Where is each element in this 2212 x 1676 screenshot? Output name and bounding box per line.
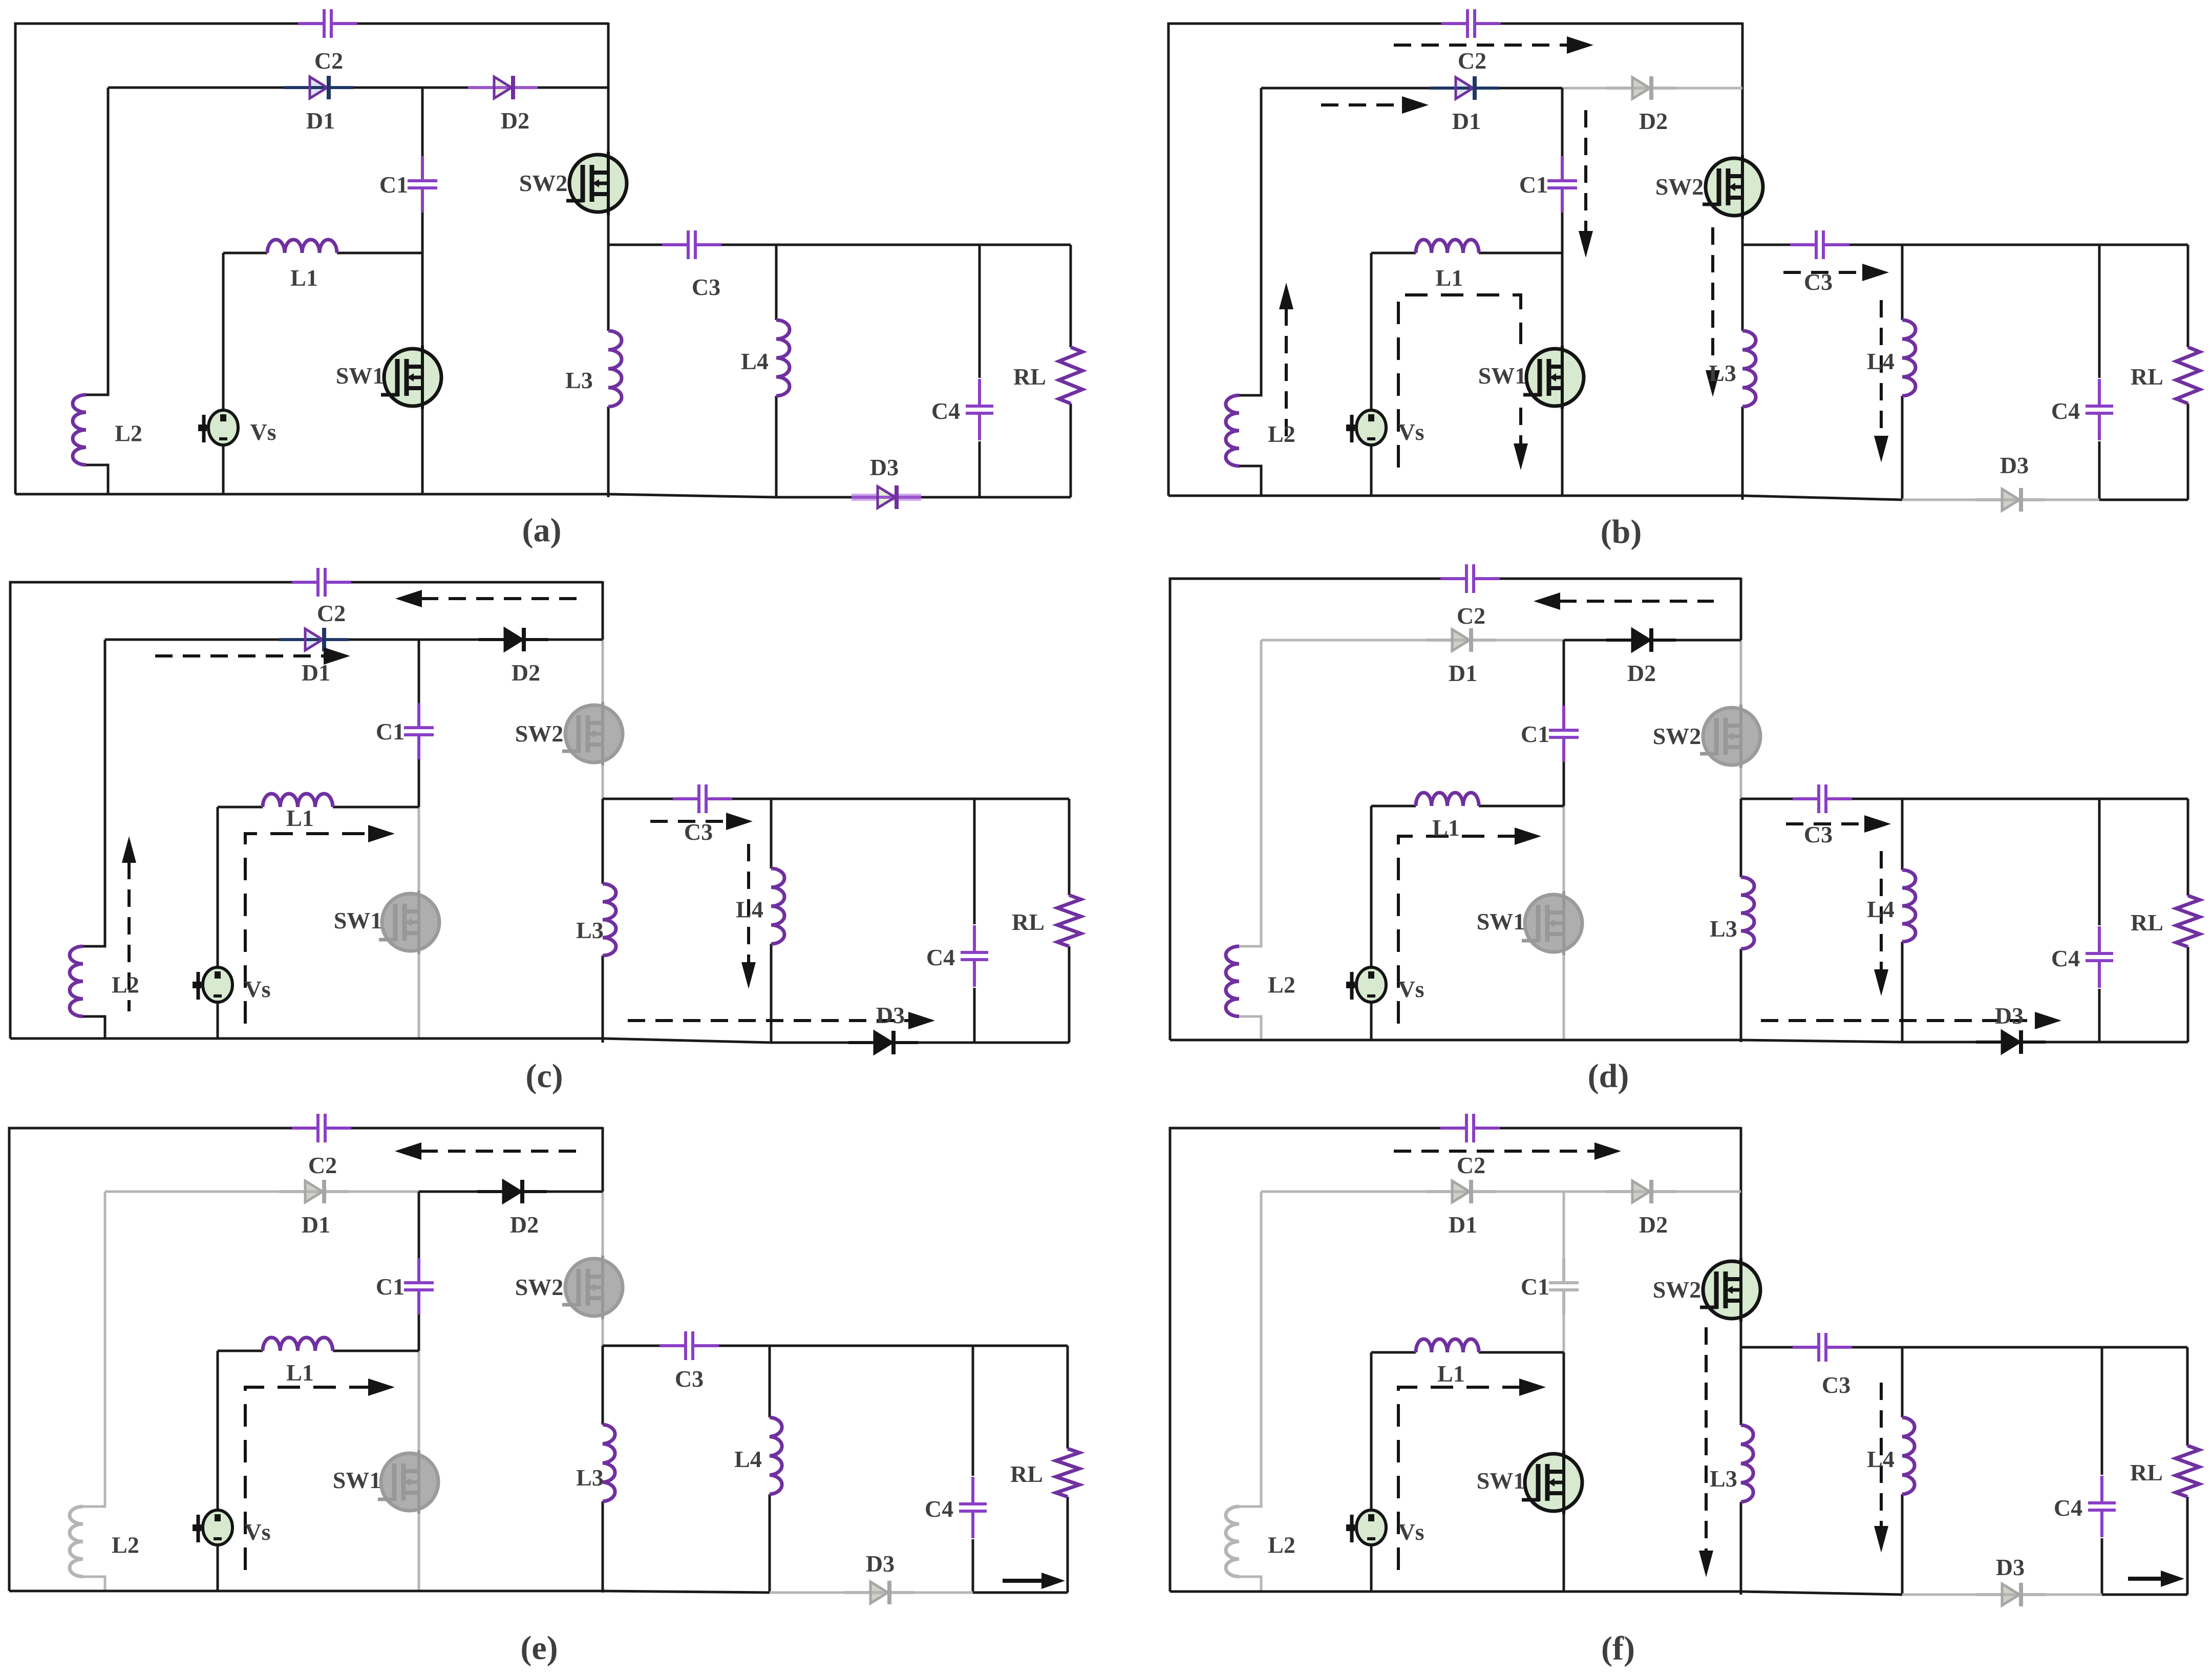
label D3 bbox=[2000, 452, 2029, 478]
svg-text:RL: RL bbox=[2131, 909, 2163, 936]
current arrow C2 bbox=[1394, 36, 1593, 54]
wire L3-column bbox=[607, 245, 610, 497]
inductor L4 bbox=[1902, 320, 1916, 396]
label C1 bbox=[376, 718, 405, 745]
capacitor C4 bbox=[2086, 926, 2113, 988]
wire L4-column bbox=[1901, 799, 1904, 1042]
figure label (b) bbox=[1601, 513, 1642, 550]
current arrow C2 bbox=[395, 590, 580, 607]
wire L2-column bbox=[83, 1192, 105, 1591]
capacitor C1 bbox=[1549, 706, 1579, 762]
label L4 bbox=[1867, 1446, 1895, 1472]
wire L4-column bbox=[775, 245, 778, 497]
diode D3 bbox=[844, 1581, 914, 1604]
label RL bbox=[1013, 364, 1046, 390]
svg-text:C2: C2 bbox=[317, 600, 346, 626]
svg-text:L1: L1 bbox=[1437, 1361, 1465, 1387]
wire bottom-D3 bbox=[770, 1592, 973, 1594]
label RL bbox=[2131, 364, 2163, 390]
label D3 bbox=[870, 454, 899, 480]
wire sw2-column-lower bbox=[602, 764, 604, 799]
inductor L1 bbox=[267, 240, 337, 253]
inductor L4 bbox=[770, 1417, 782, 1494]
wire L1-row bbox=[1371, 805, 1564, 808]
label SW2 bbox=[515, 720, 564, 747]
label Vs bbox=[1398, 419, 1424, 445]
current arrow D3 bbox=[628, 1012, 935, 1029]
wire bottom-left bbox=[1170, 1590, 1741, 1593]
wire bottom-right bbox=[973, 1592, 1068, 1594]
svg-text:SW1: SW1 bbox=[336, 363, 385, 389]
wire bottom-D3 bbox=[776, 496, 980, 499]
transistor SW2 bbox=[562, 702, 623, 766]
svg-text:SW2: SW2 bbox=[1655, 174, 1704, 200]
wire L4-column bbox=[770, 799, 773, 1043]
inductor L3 bbox=[603, 884, 616, 956]
wire C1-column-mid bbox=[418, 759, 420, 807]
wire C4-column bbox=[972, 1346, 974, 1593]
capacitor C2 bbox=[292, 1114, 351, 1142]
label L3 bbox=[576, 917, 604, 943]
wire C3-row bbox=[608, 244, 1071, 246]
label C3 bbox=[1822, 1372, 1851, 1398]
current arrow L4 bbox=[1874, 1383, 1888, 1553]
inductor L1 bbox=[1416, 240, 1479, 253]
svg-text:SW1: SW1 bbox=[1477, 1468, 1525, 1494]
svg-text:C3: C3 bbox=[1822, 1372, 1851, 1398]
wire RL-column bbox=[1070, 245, 1072, 497]
output arrow bbox=[1003, 1573, 1065, 1589]
wire bottom-right bbox=[974, 1042, 1069, 1044]
wire row2-right bbox=[422, 87, 608, 89]
inductor L1 bbox=[263, 794, 333, 807]
label Vs bbox=[1398, 1519, 1424, 1545]
wire L3-column bbox=[1741, 245, 1744, 500]
wire C3-row bbox=[603, 1345, 1068, 1347]
label Vs bbox=[244, 976, 270, 1002]
inductor L3 bbox=[608, 331, 622, 407]
current arrow L4 bbox=[1874, 300, 1888, 462]
source Vs bbox=[193, 967, 232, 1002]
svg-text:C1: C1 bbox=[379, 172, 408, 198]
diode D2 bbox=[477, 1180, 547, 1203]
wire bottom-mid bbox=[603, 1591, 770, 1593]
source Vs bbox=[1346, 1510, 1386, 1545]
wire L2-column bbox=[1239, 640, 1261, 1040]
label L3 bbox=[1710, 1466, 1737, 1492]
wire C1-column-upper bbox=[421, 88, 424, 156]
label SW1 bbox=[334, 907, 382, 934]
label D2 bbox=[1639, 1212, 1668, 1238]
svg-text:RL: RL bbox=[2130, 1459, 2163, 1486]
inductor L2 bbox=[1226, 946, 1239, 1016]
capacitor C1 bbox=[1549, 1258, 1579, 1314]
transistor SW1 bbox=[1522, 892, 1582, 955]
wire bottom-mid bbox=[1742, 496, 1902, 500]
current arrow L2 bbox=[122, 836, 136, 1011]
svg-text:SW1: SW1 bbox=[1477, 908, 1525, 935]
svg-text:C4: C4 bbox=[926, 944, 955, 970]
current arrow D1 bbox=[155, 647, 350, 665]
wire row2-right bbox=[1564, 1191, 1741, 1193]
svg-text:L2: L2 bbox=[1268, 1532, 1295, 1558]
svg-text:L3: L3 bbox=[1709, 360, 1736, 386]
resistor RL bbox=[2176, 347, 2200, 404]
svg-text:C4: C4 bbox=[2054, 1495, 2082, 1521]
wire top-right bbox=[357, 23, 608, 88]
svg-text:D2: D2 bbox=[510, 1212, 539, 1238]
svg-text:C2: C2 bbox=[314, 48, 343, 74]
svg-text:D1: D1 bbox=[306, 108, 335, 134]
wire row2-right bbox=[1562, 87, 1742, 90]
svg-text:C4: C4 bbox=[2051, 945, 2080, 971]
output arrow bbox=[2128, 1571, 2184, 1587]
diode D1 bbox=[279, 1180, 349, 1203]
svg-text:D1: D1 bbox=[1449, 660, 1477, 686]
wire row2-left bbox=[1261, 639, 1564, 642]
svg-text:C3: C3 bbox=[684, 819, 713, 845]
transistor SW2 bbox=[1703, 155, 1763, 219]
svg-text:L2: L2 bbox=[112, 972, 139, 998]
capacitor C4 bbox=[959, 1477, 987, 1538]
diode D3 bbox=[1976, 1030, 2046, 1054]
svg-text:SW2: SW2 bbox=[515, 1274, 564, 1300]
wire Vs-column bbox=[217, 807, 219, 1038]
label C2 bbox=[317, 600, 346, 626]
svg-text:C1: C1 bbox=[376, 1274, 405, 1300]
svg-text:Vs: Vs bbox=[244, 1519, 270, 1545]
label D3 bbox=[866, 1551, 895, 1577]
source Vs bbox=[193, 1510, 232, 1545]
svg-text:L4: L4 bbox=[741, 348, 769, 374]
transistor SW1 bbox=[379, 890, 439, 954]
capacitor C3 bbox=[660, 1331, 719, 1360]
wire row2-right bbox=[1564, 639, 1741, 642]
diode D2 bbox=[1606, 628, 1676, 652]
current arrow C3 bbox=[1786, 815, 1891, 833]
wire row2-left bbox=[105, 1191, 419, 1193]
svg-text:C1: C1 bbox=[1521, 721, 1549, 747]
current arrow L2 bbox=[1279, 283, 1293, 440]
label C3 bbox=[1804, 821, 1833, 847]
wire L2-column bbox=[86, 88, 108, 494]
wire C3-row bbox=[603, 798, 1069, 800]
wire C1-column-mid bbox=[1563, 1314, 1565, 1352]
wire bottom-left bbox=[1168, 495, 1742, 497]
svg-text:L4: L4 bbox=[1867, 896, 1895, 922]
inductor L2 bbox=[73, 395, 86, 465]
resistor RL bbox=[1056, 1449, 1079, 1497]
inductor L2 bbox=[1226, 395, 1239, 466]
current loop Vs bbox=[1398, 828, 1541, 1024]
diode D2 bbox=[479, 628, 548, 651]
wire row2-left bbox=[108, 87, 422, 89]
svg-text:D3: D3 bbox=[876, 1002, 905, 1028]
label C3 bbox=[692, 274, 720, 300]
wire Vs-column bbox=[217, 1351, 219, 1591]
svg-text:D3: D3 bbox=[870, 454, 899, 480]
label RL bbox=[1012, 909, 1045, 935]
svg-text:RL: RL bbox=[2131, 364, 2163, 390]
capacitor C3 bbox=[1790, 230, 1849, 259]
wire row2-right bbox=[419, 1191, 603, 1193]
svg-text:SW2: SW2 bbox=[1653, 1277, 1701, 1303]
diode D3 bbox=[1976, 488, 2046, 512]
capacitor C1 bbox=[404, 1258, 434, 1314]
transistor SW2 bbox=[1700, 1258, 1760, 1322]
wire sw2-column-lower bbox=[607, 214, 610, 245]
label D1 bbox=[302, 660, 330, 686]
inductor L3 bbox=[1741, 1425, 1753, 1502]
wire outer-left-top bbox=[9, 1128, 292, 1591]
svg-text:C3: C3 bbox=[1804, 269, 1833, 295]
wire row2-left bbox=[105, 639, 419, 641]
label C1 bbox=[1521, 1274, 1549, 1300]
svg-text:Vs: Vs bbox=[244, 976, 270, 1002]
label L3 bbox=[576, 1465, 604, 1491]
wire bottom-right bbox=[980, 496, 1071, 499]
figure label (a) bbox=[522, 512, 562, 549]
label D2 bbox=[1627, 660, 1656, 686]
wire C1-column-mid bbox=[1561, 213, 1564, 253]
transistor SW2 bbox=[566, 152, 627, 215]
label C1 bbox=[1519, 172, 1548, 198]
svg-text:L4: L4 bbox=[736, 897, 763, 923]
label C2 bbox=[1457, 1152, 1485, 1178]
svg-text:L1: L1 bbox=[286, 1360, 314, 1386]
source Vs bbox=[1346, 410, 1386, 445]
label C2 bbox=[314, 48, 343, 74]
svg-text:C4: C4 bbox=[2051, 398, 2080, 424]
capacitor C1 bbox=[1547, 156, 1577, 213]
wire C1-column-upper bbox=[418, 1192, 420, 1258]
capacitor C1 bbox=[408, 156, 437, 213]
label L2 bbox=[115, 420, 142, 447]
svg-text:RL: RL bbox=[1010, 1461, 1043, 1487]
current arrow L3 bbox=[1699, 1327, 1713, 1577]
current arrow C1-branch bbox=[1579, 110, 1593, 258]
wire row2-left bbox=[1261, 87, 1562, 90]
svg-text:L1: L1 bbox=[1432, 815, 1460, 841]
wire outer-left-top bbox=[15, 24, 299, 494]
diode D3 bbox=[1976, 1583, 2046, 1606]
svg-text:L4: L4 bbox=[1867, 348, 1895, 374]
inductor L3 bbox=[1742, 331, 1756, 407]
svg-text:(a): (a) bbox=[522, 512, 562, 549]
svg-text:D2: D2 bbox=[1627, 660, 1656, 686]
wire sw2-column-upper bbox=[1740, 1192, 1742, 1260]
label L2 bbox=[112, 1532, 139, 1558]
capacitor C4 bbox=[2088, 1476, 2116, 1537]
label C2 bbox=[1458, 48, 1486, 74]
label D2 bbox=[512, 660, 540, 686]
wire sw2-column-upper bbox=[1741, 88, 1744, 157]
wire bottom-mid bbox=[1741, 1592, 1902, 1595]
current arrow L3 bbox=[1706, 227, 1720, 397]
wire outer-left-top bbox=[1168, 24, 1442, 496]
current arrow C3 bbox=[650, 813, 753, 830]
inductor L2 bbox=[1226, 1507, 1239, 1577]
label L2 bbox=[1268, 421, 1295, 447]
svg-text:RL: RL bbox=[1012, 909, 1045, 935]
wire SW1-column bbox=[1563, 1352, 1565, 1592]
svg-text:SW1: SW1 bbox=[334, 907, 382, 934]
label RL bbox=[2130, 1459, 2163, 1486]
label SW2 bbox=[1653, 1277, 1701, 1303]
wire bottom-mid bbox=[1741, 1040, 1902, 1042]
svg-text:RL: RL bbox=[1013, 364, 1046, 390]
label SW1 bbox=[1477, 1468, 1525, 1494]
resistor RL bbox=[2176, 1446, 2199, 1497]
wire C1-column-upper bbox=[418, 640, 420, 703]
transistor SW1 bbox=[1523, 346, 1584, 409]
capacitor C4 bbox=[966, 379, 993, 440]
wire C1-column-upper bbox=[1561, 88, 1564, 156]
diode D2 bbox=[1606, 76, 1676, 100]
source Vs bbox=[198, 410, 238, 445]
wire RL-column bbox=[2187, 799, 2189, 1042]
capacitor C2 bbox=[1440, 564, 1500, 593]
resistor RL bbox=[2176, 896, 2200, 947]
resistor RL bbox=[1059, 347, 1082, 404]
figure label (c) bbox=[525, 1057, 563, 1095]
wire C1-column-mid bbox=[1563, 762, 1565, 806]
label L4 bbox=[734, 1446, 762, 1472]
wire Vs-column bbox=[1370, 1352, 1373, 1592]
label SW2 bbox=[1653, 723, 1701, 749]
current loop Vs bbox=[245, 1378, 395, 1570]
wire C4-column bbox=[2098, 245, 2101, 500]
wire bottom-mid bbox=[608, 494, 776, 497]
label C3 bbox=[1804, 269, 1833, 295]
svg-text:L2: L2 bbox=[112, 1532, 139, 1558]
wire SW1-column bbox=[1561, 253, 1564, 496]
capacitor C2 bbox=[1440, 1114, 1500, 1142]
wire L2-column bbox=[1239, 88, 1261, 496]
label L3 bbox=[565, 367, 593, 393]
svg-text:D2: D2 bbox=[1639, 1212, 1668, 1238]
svg-text:Vs: Vs bbox=[250, 419, 276, 445]
svg-text:L2: L2 bbox=[1268, 421, 1295, 447]
svg-text:C2: C2 bbox=[1458, 48, 1486, 74]
wire sw2-column-upper bbox=[602, 640, 604, 704]
wire bottom-left bbox=[10, 1037, 603, 1040]
svg-text:(f): (f) bbox=[1601, 1630, 1635, 1667]
svg-text:C2: C2 bbox=[1457, 603, 1485, 629]
svg-text:L2: L2 bbox=[1268, 972, 1295, 998]
wire bottom-right bbox=[2099, 499, 2188, 501]
label D3 bbox=[876, 1002, 905, 1028]
label SW2 bbox=[515, 1274, 564, 1300]
svg-text:L3: L3 bbox=[1710, 1466, 1737, 1492]
capacitor C1 bbox=[404, 703, 434, 759]
inductor L1 bbox=[1416, 793, 1479, 806]
wire L4-column bbox=[1901, 245, 1904, 500]
figure label (e) bbox=[520, 1629, 558, 1667]
svg-text:Vs: Vs bbox=[1398, 1519, 1424, 1545]
svg-text:C4: C4 bbox=[931, 398, 960, 424]
svg-text:D2: D2 bbox=[1639, 108, 1668, 134]
current loop Vs bbox=[245, 825, 395, 1024]
current arrow D3 bbox=[1761, 1012, 2061, 1029]
wire SW1-column bbox=[418, 1351, 420, 1591]
svg-text:D1: D1 bbox=[1449, 1212, 1477, 1238]
svg-text:D1: D1 bbox=[1452, 108, 1481, 134]
wire L1-row bbox=[223, 252, 422, 254]
wire SW1-column bbox=[421, 253, 424, 494]
label RL bbox=[2131, 909, 2163, 936]
svg-text:D2: D2 bbox=[501, 108, 529, 134]
wire C1-column-mid bbox=[421, 213, 424, 253]
wire SW1-column bbox=[1563, 806, 1565, 1040]
label L4 bbox=[741, 348, 769, 374]
label L1 bbox=[286, 1360, 314, 1386]
wire sw2-column-upper bbox=[602, 1192, 604, 1257]
wire top-right bbox=[1500, 23, 1742, 88]
wire outer-left-top bbox=[1170, 1128, 1441, 1592]
svg-text:Vs: Vs bbox=[1398, 419, 1424, 445]
wire L1-row bbox=[1371, 1351, 1564, 1354]
svg-text:D3: D3 bbox=[1995, 1003, 2024, 1029]
wire top-right bbox=[1499, 578, 1741, 640]
svg-text:L4: L4 bbox=[734, 1446, 762, 1472]
wire C3-row bbox=[1741, 798, 2188, 800]
label SW1 bbox=[1477, 908, 1525, 935]
svg-text:L2: L2 bbox=[115, 420, 142, 447]
wire L3-column bbox=[1740, 799, 1742, 1042]
label C4 bbox=[2054, 1495, 2082, 1521]
svg-text:L3: L3 bbox=[1710, 916, 1737, 942]
wire RL-column bbox=[2187, 245, 2189, 500]
svg-text:D3: D3 bbox=[1996, 1554, 2025, 1580]
svg-text:SW1: SW1 bbox=[333, 1467, 381, 1493]
wire bottom-D3 bbox=[1902, 1594, 2102, 1596]
wire bottom-D3 bbox=[771, 1042, 974, 1044]
label D2 bbox=[1639, 108, 1668, 134]
label SW1 bbox=[1478, 363, 1527, 389]
capacitor C4 bbox=[961, 925, 988, 987]
label D1 bbox=[1452, 108, 1481, 134]
label Vs bbox=[1398, 976, 1424, 1002]
inductor L1 bbox=[263, 1338, 333, 1351]
wire bottom-right bbox=[2099, 1041, 2188, 1044]
wire sw2-column-lower bbox=[1740, 767, 1742, 799]
wire L3-column bbox=[602, 1346, 604, 1593]
current arrow C3 bbox=[1783, 264, 1889, 281]
svg-text:(d): (d) bbox=[1588, 1057, 1629, 1095]
svg-text:D1: D1 bbox=[302, 1212, 330, 1238]
svg-text:L3: L3 bbox=[576, 917, 604, 943]
figure label (d) bbox=[1588, 1057, 1629, 1095]
wire L3-column bbox=[1740, 1347, 1742, 1595]
wire C4-column bbox=[973, 799, 976, 1043]
wire Vs-column bbox=[222, 253, 225, 494]
label Vs bbox=[244, 1519, 270, 1545]
wire bottom-D3 bbox=[1902, 1041, 2099, 1044]
wire L3-column bbox=[602, 799, 604, 1043]
label D2 bbox=[501, 108, 529, 134]
svg-text:(c): (c) bbox=[525, 1057, 563, 1095]
svg-text:L1: L1 bbox=[1436, 265, 1463, 291]
diode D3 bbox=[852, 485, 921, 509]
label L1 bbox=[290, 265, 318, 291]
label D1 bbox=[1449, 1212, 1477, 1238]
wire sw2-column-upper bbox=[1740, 640, 1742, 706]
label D1 bbox=[302, 1212, 330, 1238]
diode D3 bbox=[848, 1031, 918, 1054]
label C2 bbox=[308, 1152, 337, 1178]
source Vs bbox=[1346, 967, 1386, 1002]
